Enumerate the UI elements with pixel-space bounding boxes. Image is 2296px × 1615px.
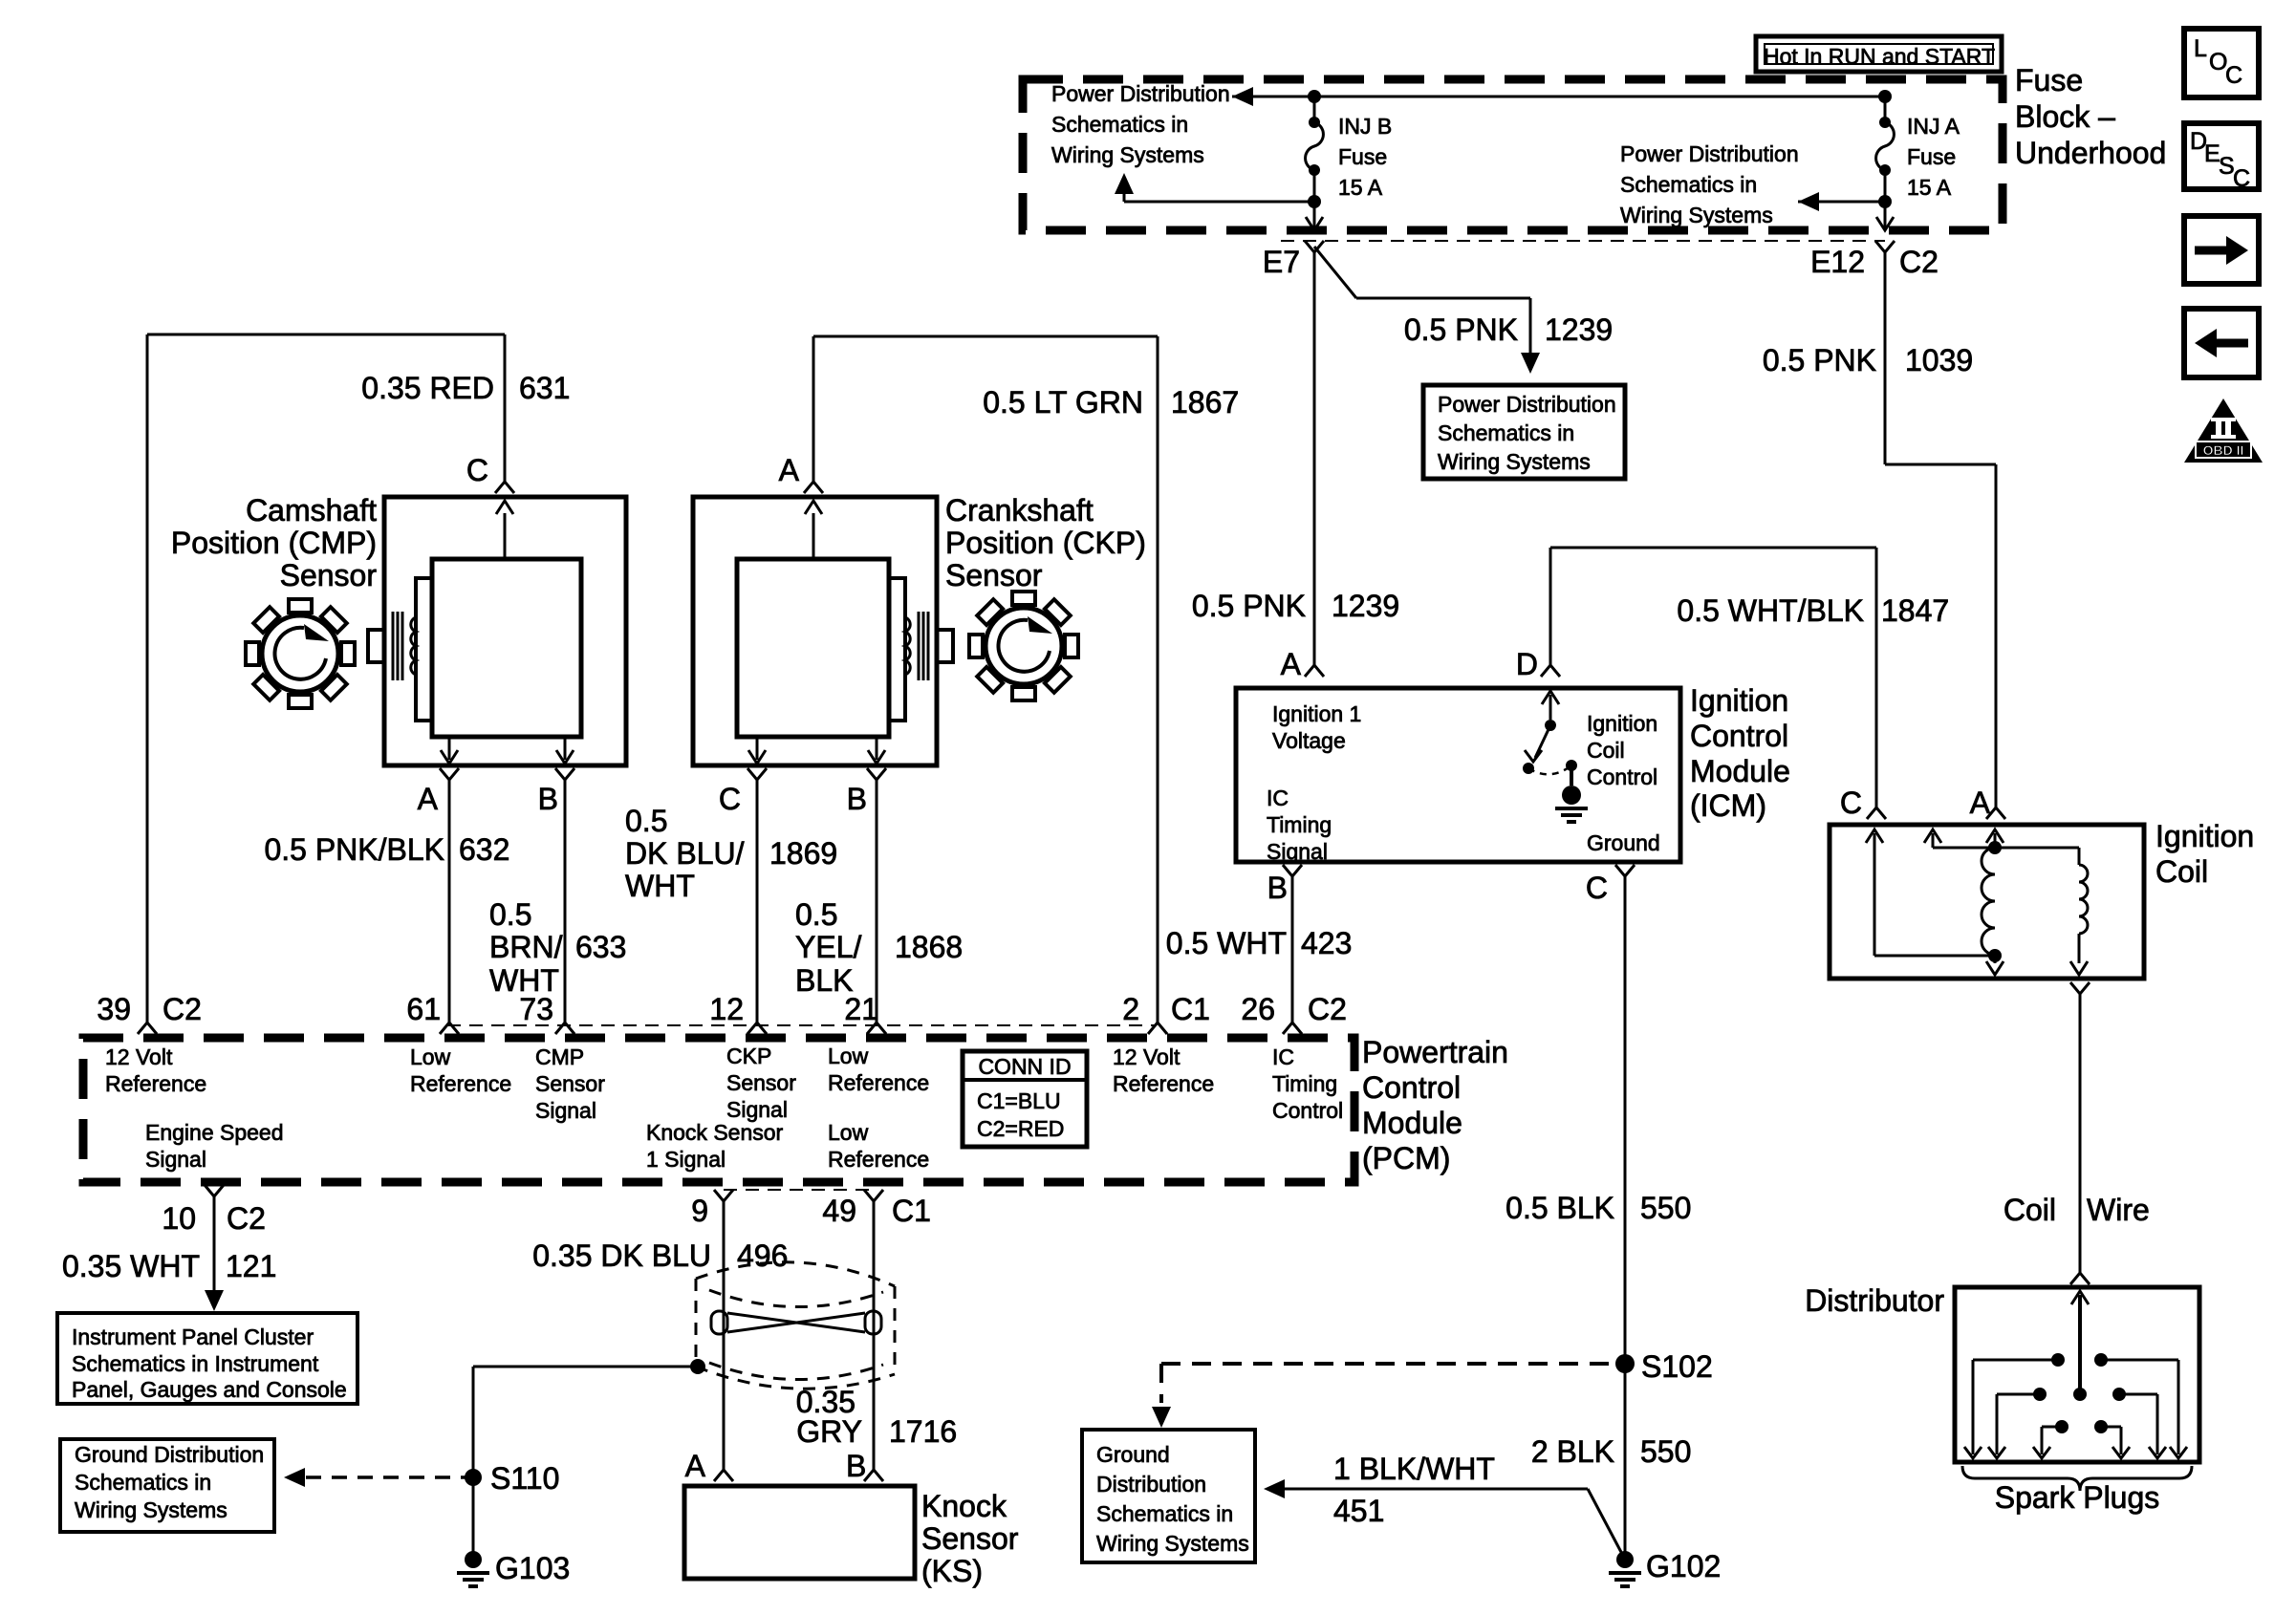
svg-text:C2: C2 (1899, 245, 1939, 279)
svg-text:Control: Control (1272, 1098, 1343, 1123)
svg-text:C2: C2 (162, 992, 202, 1026)
svg-text:Ground Distribution: Ground Distribution (75, 1442, 264, 1467)
svg-text:0.5 PNK: 0.5 PNK (1192, 589, 1306, 623)
svg-text:Signal: Signal (145, 1147, 206, 1172)
svg-text:Schematics in: Schematics in (1096, 1501, 1233, 1526)
svg-text:Distributor: Distributor (1805, 1283, 1944, 1318)
svg-text:Signal: Signal (535, 1098, 596, 1123)
svg-text:0.5 PNK: 0.5 PNK (1404, 312, 1518, 347)
svg-text:C: C (466, 453, 488, 487)
svg-text:0.5 BLK: 0.5 BLK (1505, 1191, 1614, 1225)
svg-text:Reference: Reference (1113, 1071, 1214, 1096)
svg-text:A: A (1970, 786, 1991, 820)
svg-text:550: 550 (1640, 1434, 1691, 1469)
svg-text:Sensor: Sensor (726, 1070, 796, 1095)
svg-text:550: 550 (1640, 1191, 1691, 1225)
svg-text:INJ B: INJ B (1338, 114, 1392, 139)
svg-text:Ignition: Ignition (2155, 819, 2254, 853)
svg-text:1847: 1847 (1881, 593, 1949, 628)
svg-text:Coil: Coil (1587, 738, 1625, 763)
svg-text:INJ A: INJ A (1907, 114, 1960, 139)
svg-text:Fuse: Fuse (1338, 144, 1387, 169)
svg-text:IC: IC (1267, 786, 1289, 810)
svg-text:IC: IC (1272, 1044, 1294, 1069)
svg-text:Underhood: Underhood (2015, 136, 2166, 170)
svg-text:A: A (685, 1449, 706, 1483)
svg-text:Reference: Reference (410, 1071, 511, 1096)
svg-text:1239: 1239 (1332, 589, 1399, 623)
svg-text:(ICM): (ICM) (1690, 788, 1766, 823)
svg-text:Knock: Knock (921, 1489, 1007, 1523)
svg-text:C: C (2225, 62, 2242, 89)
svg-text:B: B (846, 1449, 866, 1483)
svg-text:C: C (719, 782, 741, 816)
svg-text:15 A: 15 A (1338, 175, 1383, 200)
svg-text:496: 496 (737, 1238, 788, 1273)
svg-text:CKP: CKP (726, 1044, 771, 1068)
svg-text:C1: C1 (1171, 992, 1210, 1026)
svg-text:Module: Module (1690, 754, 1790, 788)
svg-text:Spark Plugs: Spark Plugs (1995, 1480, 2160, 1515)
svg-text:C2: C2 (227, 1201, 266, 1236)
svg-text:1239: 1239 (1545, 312, 1613, 347)
svg-text:CONN ID: CONN ID (978, 1054, 1071, 1079)
svg-text:Distribution: Distribution (1096, 1472, 1206, 1497)
svg-text:61: 61 (406, 992, 441, 1026)
svg-text:0.5: 0.5 (625, 804, 667, 838)
svg-text:12: 12 (709, 992, 744, 1026)
svg-text:2 BLK: 2 BLK (1531, 1434, 1614, 1469)
svg-text:Wiring Systems: Wiring Systems (1438, 449, 1591, 474)
svg-text:(KS): (KS) (921, 1554, 983, 1588)
svg-text:Coil: Coil (2155, 854, 2208, 889)
svg-text:Schematics in: Schematics in (75, 1470, 211, 1495)
svg-text:Wiring Systems: Wiring Systems (1051, 142, 1204, 167)
svg-text:Power Distribution: Power Distribution (1051, 81, 1230, 106)
svg-text:D: D (1516, 647, 1538, 681)
svg-text:Fuse: Fuse (1907, 144, 1956, 169)
svg-text:C: C (2233, 165, 2250, 192)
svg-text:Knock Sensor: Knock Sensor (646, 1120, 784, 1145)
svg-text:Ignition: Ignition (1587, 711, 1657, 736)
svg-text:Crankshaft: Crankshaft (945, 493, 1094, 528)
svg-text:9: 9 (691, 1194, 708, 1228)
svg-text:Powertrain: Powertrain (1362, 1035, 1508, 1069)
svg-text:Signal: Signal (1267, 839, 1328, 864)
svg-text:Ground: Ground (1587, 830, 1660, 855)
svg-text:1 BLK/WHT: 1 BLK/WHT (1333, 1452, 1495, 1486)
svg-text:Timing: Timing (1272, 1071, 1337, 1096)
svg-text:S110: S110 (490, 1461, 559, 1496)
svg-text:0.35 RED: 0.35 RED (361, 371, 494, 405)
svg-text:C1=BLU: C1=BLU (977, 1088, 1061, 1113)
svg-text:Ignition: Ignition (1690, 683, 1788, 718)
svg-text:0.5 PNK/BLK: 0.5 PNK/BLK (264, 832, 444, 867)
svg-text:0.35 DK BLU: 0.35 DK BLU (532, 1238, 711, 1273)
svg-text:CMP: CMP (535, 1044, 584, 1069)
svg-text:C2=RED: C2=RED (977, 1116, 1064, 1141)
svg-text:633: 633 (575, 930, 626, 964)
svg-text:Control: Control (1690, 719, 1788, 753)
svg-text:Schematics in: Schematics in (1620, 172, 1757, 197)
svg-text:0.5: 0.5 (795, 897, 837, 932)
svg-text:Ignition 1: Ignition 1 (1272, 701, 1361, 726)
svg-text:Position (CKP): Position (CKP) (945, 526, 1146, 560)
svg-text:1869: 1869 (769, 836, 837, 871)
svg-text:0.5 WHT: 0.5 WHT (1166, 926, 1287, 960)
svg-text:Camshaft: Camshaft (246, 493, 377, 528)
svg-text:A: A (779, 453, 800, 487)
svg-text:0.5 WHT/BLK: 0.5 WHT/BLK (1677, 593, 1864, 628)
svg-text:(PCM): (PCM) (1362, 1141, 1450, 1175)
svg-text:Wiring Systems: Wiring Systems (75, 1497, 227, 1522)
svg-text:B: B (1267, 871, 1288, 905)
svg-text:Wiring Systems: Wiring Systems (1096, 1531, 1249, 1556)
svg-text:G102: G102 (1646, 1549, 1721, 1583)
svg-text:632: 632 (459, 832, 509, 867)
svg-text:Panel, Gauges and Console: Panel, Gauges and Console (72, 1377, 347, 1402)
svg-text:Schematics in: Schematics in (1438, 420, 1574, 445)
svg-text:C2: C2 (1308, 992, 1347, 1026)
svg-text:Reference: Reference (105, 1071, 206, 1096)
svg-text:10: 10 (162, 1201, 196, 1236)
svg-text:1867: 1867 (1171, 385, 1239, 420)
svg-text:DK BLU/: DK BLU/ (625, 836, 745, 871)
svg-text:GRY: GRY (796, 1414, 862, 1449)
svg-text:C: C (1840, 786, 1862, 820)
svg-text:73: 73 (519, 992, 553, 1026)
svg-text:Ground: Ground (1096, 1442, 1170, 1467)
svg-text:OBD II: OBD II (2203, 442, 2244, 458)
svg-text:Instrument Panel Cluster: Instrument Panel Cluster (72, 1324, 314, 1349)
svg-text:Control: Control (1362, 1070, 1461, 1105)
svg-text:Hot In RUN and START: Hot In RUN and START (1764, 44, 1995, 69)
svg-text:1039: 1039 (1905, 343, 1973, 377)
svg-text:Wiring Systems: Wiring Systems (1620, 203, 1773, 227)
svg-text:423: 423 (1301, 926, 1352, 960)
svg-text:WHT: WHT (625, 869, 695, 903)
svg-text:Coil: Coil (2004, 1193, 2056, 1227)
svg-text:Power Distribution: Power Distribution (1438, 392, 1616, 417)
svg-text:Wire: Wire (2087, 1193, 2150, 1227)
svg-text:Reference: Reference (828, 1070, 929, 1095)
svg-text:C1: C1 (892, 1194, 931, 1228)
svg-text:E7: E7 (1263, 245, 1300, 279)
svg-text:1 Signal: 1 Signal (646, 1147, 726, 1172)
svg-text:Power Distribution: Power Distribution (1620, 141, 1799, 166)
svg-text:0.5: 0.5 (489, 897, 531, 932)
svg-text:49: 49 (822, 1194, 856, 1228)
svg-text:Low: Low (828, 1044, 869, 1068)
svg-text:Module: Module (1362, 1106, 1462, 1140)
svg-text:BRN/: BRN/ (489, 930, 563, 964)
svg-text:0.5 PNK: 0.5 PNK (1763, 343, 1876, 377)
svg-text:Sensor: Sensor (921, 1521, 1019, 1556)
svg-text:Engine Speed: Engine Speed (145, 1120, 284, 1145)
svg-text:Control: Control (1587, 764, 1657, 789)
svg-text:Schematics in Instrument: Schematics in Instrument (72, 1351, 319, 1376)
svg-text:451: 451 (1333, 1494, 1384, 1528)
svg-text:2: 2 (1122, 992, 1139, 1026)
svg-text:Schematics in: Schematics in (1051, 112, 1188, 137)
svg-text:Signal: Signal (726, 1097, 788, 1122)
svg-text:Sensor: Sensor (945, 558, 1043, 592)
svg-text:39: 39 (97, 992, 131, 1026)
svg-text:631: 631 (519, 371, 570, 405)
svg-text:Fuse: Fuse (2015, 63, 2083, 97)
svg-text:Block –: Block – (2015, 99, 2115, 134)
svg-text:Sensor: Sensor (535, 1071, 605, 1096)
svg-text:Voltage: Voltage (1272, 728, 1346, 753)
svg-text:1868: 1868 (895, 930, 963, 964)
svg-text:Sensor: Sensor (280, 558, 378, 592)
svg-text:G103: G103 (495, 1551, 570, 1585)
svg-text:0.5 LT GRN: 0.5 LT GRN (983, 385, 1143, 420)
svg-text:21: 21 (844, 992, 878, 1026)
svg-text:YEL/: YEL/ (795, 930, 861, 964)
svg-text:B: B (538, 782, 558, 816)
svg-text:A: A (418, 782, 439, 816)
svg-text:12 Volt: 12 Volt (105, 1044, 173, 1069)
svg-text:1716: 1716 (889, 1414, 957, 1449)
svg-text:Low: Low (410, 1044, 451, 1069)
svg-text:0.35 WHT: 0.35 WHT (62, 1249, 200, 1283)
svg-text:26: 26 (1241, 992, 1275, 1026)
svg-text:B: B (847, 782, 867, 816)
svg-text:Low: Low (828, 1120, 869, 1145)
svg-text:15 A: 15 A (1907, 175, 1952, 200)
svg-text:A: A (1281, 647, 1302, 681)
svg-text:12 Volt: 12 Volt (1113, 1044, 1180, 1069)
svg-text:S102: S102 (1641, 1349, 1713, 1384)
svg-text:E12: E12 (1810, 245, 1865, 279)
svg-text:121: 121 (226, 1249, 276, 1283)
svg-text:Timing: Timing (1267, 812, 1332, 837)
svg-text:Position (CMP): Position (CMP) (171, 526, 377, 560)
svg-text:Reference: Reference (828, 1147, 929, 1172)
svg-text:L: L (2194, 35, 2207, 62)
svg-text:C: C (1586, 871, 1608, 905)
